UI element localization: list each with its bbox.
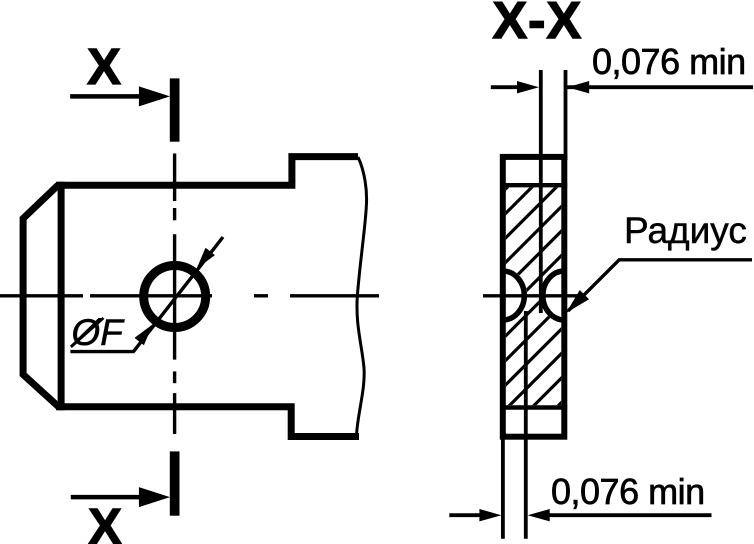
hole void left (white) bbox=[503, 268, 528, 323]
hole radius arc right bbox=[543, 271, 565, 320]
svg-text:0,076 min: 0,076 min bbox=[551, 471, 705, 512]
svg-text:Радиус: Радиус bbox=[624, 210, 747, 251]
section body rect bbox=[503, 157, 565, 437]
radius leader bbox=[568, 260, 752, 311]
section inner line bottom bbox=[500, 405, 567, 409]
diameter leader line bbox=[70, 237, 223, 352]
hatching bbox=[283, 180, 754, 412]
svg-text:X: X bbox=[88, 498, 122, 544]
section line X bottom bbox=[170, 451, 180, 515]
section arrow top bbox=[70, 94, 145, 99]
svg-text:ØF: ØF bbox=[70, 312, 126, 353]
horizontal centerline bbox=[0, 294, 379, 297]
break line bbox=[357, 157, 367, 436]
section inner line top bbox=[500, 183, 567, 187]
hole void right (white) bbox=[540, 268, 565, 323]
section arrow bottom bbox=[71, 495, 145, 500]
diameter symbol slash extension bbox=[71, 318, 104, 347]
extension line of left edge (bottom) bbox=[501, 437, 505, 539]
svg-text:X: X bbox=[87, 38, 121, 95]
part inner edge bbox=[58, 182, 65, 411]
hole circle bbox=[144, 266, 206, 328]
top dimension 0,076 min bbox=[491, 85, 520, 89]
section centerline bbox=[483, 294, 579, 297]
section line X top bbox=[170, 78, 180, 141]
extension line B (bottom, tangent to left arc) bbox=[524, 311, 528, 539]
svg-text:0,076 min: 0,076 min bbox=[592, 41, 746, 82]
vertical centerline bbox=[173, 154, 176, 435]
diameter arrow upper bbox=[197, 248, 215, 269]
part bottom edge with step bbox=[56, 407, 359, 437]
hole radius arc left bbox=[503, 271, 525, 320]
extension line A (top, tangent to right arc) bbox=[539, 70, 543, 313]
svg-text:X-X: X-X bbox=[493, 0, 583, 50]
bottom dimension 0,076 min bbox=[449, 513, 480, 517]
diameter arrow lower bbox=[135, 324, 153, 345]
part top edge with step bbox=[56, 157, 358, 186]
extension line of right edge (top) bbox=[564, 70, 568, 160]
part left cap outline bbox=[23, 185, 58, 407]
radius arrow bbox=[566, 290, 589, 313]
